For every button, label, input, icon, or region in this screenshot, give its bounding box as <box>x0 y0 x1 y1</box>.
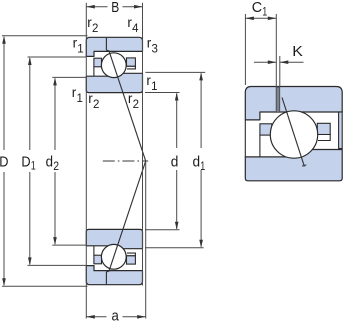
svg-text:K: K <box>292 43 303 60</box>
svg-text:D: D <box>0 153 9 170</box>
svg-text:d: d <box>171 153 179 170</box>
svg-text:B: B <box>111 0 119 16</box>
svg-text:a: a <box>111 307 119 321</box>
